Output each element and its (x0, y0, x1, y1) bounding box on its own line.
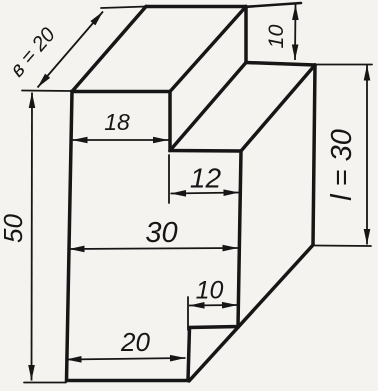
svg-text:12: 12 (190, 163, 222, 194)
dimension line 12 (171, 193, 240, 194)
back right vertical edge (313, 65, 315, 245)
svg-text:10: 10 (196, 277, 224, 305)
dimension line 30 (69, 248, 238, 249)
extension line for depth dim top (101, 7, 146, 9)
extension line bottom-left (24, 382, 66, 384)
receding edge from front-top-right corner of tall part (170, 7, 246, 92)
front face outline (67, 92, 242, 381)
svg-text:l = 30: l = 30 (326, 129, 358, 201)
svg-text:10: 10 (264, 25, 288, 49)
extension line for l dim top (316, 64, 372, 66)
dimension line 50 (31, 93, 34, 381)
dimension line l=30 (366, 65, 368, 245)
extension line top-left (22, 90, 72, 93)
svg-text:20: 20 (120, 327, 150, 357)
dimension line в=20 (38, 12, 104, 88)
dimension line 20 (66, 358, 186, 360)
dimension line top 10 (294, 5, 297, 61)
back step vertical edge (244, 7, 248, 63)
extension line for top 10 dim (246, 3, 301, 7)
bottom receding edge (notch diagonal) (189, 245, 313, 381)
svg-text:50: 50 (0, 214, 28, 243)
dimension line bottom 10 (189, 304, 238, 307)
svg-text:18: 18 (104, 109, 130, 135)
receding edge from step inner corner (170, 63, 246, 151)
svg-text:30: 30 (145, 217, 177, 249)
top back edge (146, 5, 246, 9)
receding edge from front-top-left corner (72, 7, 146, 92)
extension line for 12 dim (168, 155, 170, 203)
extension line for l dim bottom (315, 245, 371, 248)
dimension line 18 (72, 139, 169, 141)
receding edge from right part front-top corner (241, 65, 315, 151)
back top edge of right part (246, 63, 315, 66)
extension line for bottom 10 dim (187, 297, 189, 330)
